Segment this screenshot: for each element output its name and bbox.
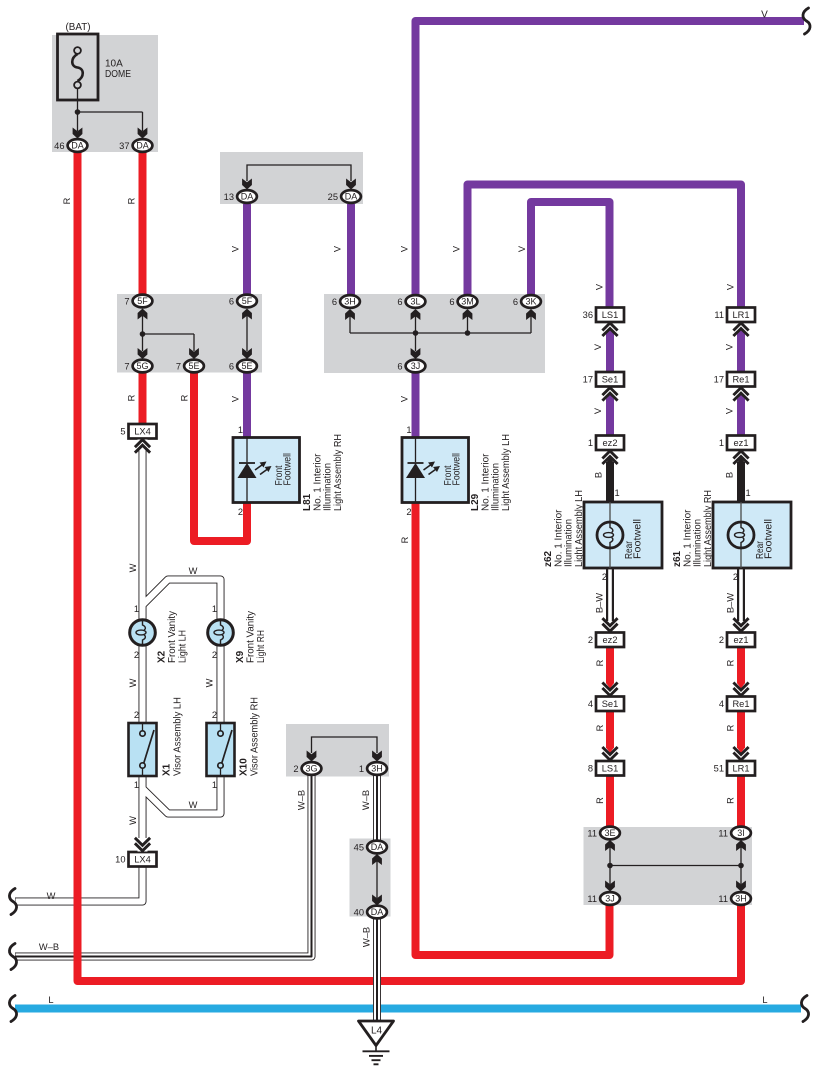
chevrons into 4 Re1 [733,683,748,696]
wire R 5E to L81 pin2 [194,372,247,541]
svg-text:V: V [761,10,768,21]
svg-text:ez2: ez2 [603,438,618,448]
svg-text:2: 2 [134,710,139,720]
arrow into 37DA [138,128,148,139]
ground L4 [359,1021,394,1064]
chevrons into 36 LS1 [602,323,617,336]
wire R L29 pin2 to 3J [416,502,610,955]
svg-text:3L: 3L [410,297,420,307]
svg-text:6: 6 [229,362,234,372]
svg-text:46: 46 [54,141,64,151]
wire R Re1 to LR1 [737,711,745,749]
svg-text:V: V [400,245,410,252]
chevrons into 5 LX4 [138,440,148,449]
svg-text:37: 37 [119,141,129,151]
chevrons into 17 Se1 [602,388,617,401]
svg-text:6: 6 [397,362,402,372]
svg-text:7: 7 [176,362,181,372]
svg-text:5E: 5E [188,361,199,371]
rect 10 LX4 [129,852,157,867]
svg-text:8: 8 [588,764,593,774]
svg-text:3M: 3M [461,297,474,307]
arrow into 3J [411,348,421,359]
rect 1 ez1 [727,436,755,451]
svg-text:L: L [762,995,767,1005]
svg-text:17: 17 [714,375,724,385]
svg-text:W: W [189,800,198,810]
svg-text:W: W [128,563,138,572]
svg-text:Light RH: Light RH [256,630,267,663]
svg-text:R: R [726,724,736,731]
label X1 visor [162,697,184,776]
oval 7 5F [133,295,153,308]
svg-text:7: 7 [124,362,129,372]
wire R 46DA to bottom to 3H [78,151,742,981]
svg-text:ez1: ez1 [734,438,749,448]
svg-text:5: 5 [120,427,125,437]
junction block 3E/3I/3J/3H [584,827,753,905]
svg-text:R: R [726,659,736,666]
45DA/40DA link [376,859,378,898]
svg-text:B: B [725,472,735,478]
svg-text:W: W [128,816,138,825]
wire V top feed to 3L [416,21,805,295]
svg-text:V: V [725,407,735,414]
svg-text:ez2: ez2 [603,635,618,645]
svg-text:ez1: ez1 [734,635,749,645]
arrow into 3E [605,840,615,851]
fuse DOME 10A [58,34,99,100]
oval 25 DA [341,190,361,203]
svg-text:2: 2 [406,507,411,517]
svg-text:W–B: W–B [361,790,371,810]
oval 46 DA [68,139,88,152]
front vanity light X9 bulb [208,620,234,646]
svg-text:2: 2 [602,572,607,582]
svg-text:Front Vanity: Front Vanity [246,611,257,663]
svg-text:W–B: W–B [297,790,307,810]
oval 6 3J [406,360,426,373]
svg-text:R: R [62,197,72,204]
visor assembly X10 [207,723,235,776]
oval texts [71,141,747,918]
junction block 3G/3H [286,724,389,777]
svg-text:V: V [725,343,735,350]
arrow into 3K [526,309,536,320]
svg-text:2: 2 [293,764,298,774]
oval 6 3H [340,295,360,308]
junction dot fuse [75,109,81,115]
svg-text:Light LH: Light LH [178,630,189,663]
arrow into 40DA [372,895,382,906]
INTERNAL BLOCK WIRING [78,89,742,898]
svg-text:1: 1 [212,604,217,614]
svg-text:40: 40 [354,908,364,918]
label X9 vanity [235,611,267,663]
svg-text:1: 1 [359,764,364,774]
chevrons into 8 LS1 [602,747,617,760]
svg-text:Light Assembly LH: Light Assembly LH [574,490,585,567]
CONNECTOR OVALS [68,139,751,918]
svg-text:Front Vanity: Front Vanity [167,611,178,663]
chevrons into 17 Re1 [733,388,748,401]
label L29 assembly [470,434,512,511]
svg-text:R: R [127,197,137,204]
wire V LS1 to Se1 [606,334,614,372]
wire W visor RH return [143,776,221,814]
svg-text:2: 2 [588,635,593,645]
svg-text:4: 4 [588,699,593,709]
svg-text:51: 51 [714,764,724,774]
arrow into 7 5E [189,348,199,359]
svg-text:11: 11 [714,310,724,320]
svg-text:Light Assembly RH: Light Assembly RH [703,490,714,567]
svg-text:B: B [594,472,604,478]
svg-text:Re1: Re1 [732,699,749,709]
junction dot 3L [413,330,419,336]
svg-text:W–B: W–B [39,942,59,952]
chevrons into 1 ez2 [602,451,617,464]
svg-text:3J: 3J [605,894,615,904]
svg-text:5G: 5G [136,361,148,371]
rect 1 ez2 [596,436,624,451]
svg-text:B–W: B–W [595,593,605,613]
break L left [9,996,16,1022]
svg-text:1: 1 [134,604,139,614]
svg-text:7: 7 [124,297,129,307]
wire V 25DA to 3H [347,204,355,295]
svg-text:3H: 3H [735,894,747,904]
svg-text:R: R [595,724,605,731]
svg-text:LS1: LS1 [602,764,619,774]
rect 36 LS1 [596,308,624,323]
oval 6 3M [458,295,478,308]
wire B-W rear footwell RH to ez1 [737,567,745,621]
junction block 3H/3L/3M/3K/3J [324,294,545,373]
junction dot 3M [465,330,471,336]
arrow into 3J lower [605,881,615,892]
svg-text:X9: X9 [235,650,246,663]
3E/3I/3J/3H links [610,846,741,884]
svg-text:3I: 3I [737,828,745,838]
svg-text:5E: 5E [241,361,252,371]
arrow into 3H lower [372,751,382,762]
rect 51 LR1 [727,761,755,776]
chevrons into 51 LR1 [733,747,748,760]
arrow into 46DA [73,128,83,139]
oval 6 5F [237,295,257,308]
wire V Re1 to ez1 [737,399,745,437]
svg-text:Footwell: Footwell [283,453,294,486]
svg-text:LX4: LX4 [134,855,151,865]
svg-text:13: 13 [224,192,234,202]
svg-text:V: V [333,245,343,252]
wire B ez1 to rear footwell RH [737,462,745,503]
fuse output wiring [78,89,143,131]
svg-text:R: R [726,797,736,804]
svg-text:1: 1 [212,780,217,790]
wire R 37DA to 5F [139,151,147,295]
oval 13 DA [237,190,257,203]
svg-text:3G: 3G [305,764,317,774]
wire W-B 40DA to ground L4 [373,918,381,1022]
arrow into 25DA [346,179,356,190]
label X10 visor [239,697,261,776]
label z62 assembly [543,490,585,567]
front footwell light L81 box [233,438,300,503]
oval 7 5G [133,360,153,373]
oval 6 3K [521,295,541,308]
chevrons into 2 ez1 [733,618,748,631]
oval 37 DA [133,139,153,152]
3G/3H link [312,737,378,753]
rear footwell light z61 box [713,502,791,568]
wire B ez2 to rear footwell LH [606,462,614,503]
svg-text:6: 6 [229,297,234,307]
svg-text:2: 2 [733,572,738,582]
break L right [801,996,808,1022]
oval 1 3H [367,762,387,775]
svg-text:DA: DA [136,141,149,151]
junction block (BAT fuse box) [52,35,158,152]
svg-text:Light Assembly RH: Light Assembly RH [333,434,344,511]
svg-text:Footwell: Footwell [452,453,463,486]
DA 13/25 link [247,165,351,181]
svg-text:1: 1 [588,438,593,448]
rotated wire color labels [62,197,736,947]
wire V 3K to LS1 [531,202,610,308]
svg-text:DA: DA [371,842,384,852]
svg-text:10A: 10A [105,59,123,70]
chevrons into 1 ez1 [733,451,748,464]
svg-text:X2: X2 [157,650,168,663]
svg-text:V: V [593,343,603,350]
rear footwell light z62 box [584,502,662,568]
svg-text:W–B: W–B [362,927,372,947]
svg-text:6: 6 [449,297,454,307]
svg-text:V: V [231,245,241,252]
break W-B left [9,944,16,970]
break V top right [803,8,810,34]
svg-text:6: 6 [332,297,337,307]
svg-text:2: 2 [238,507,243,517]
svg-text:5F: 5F [242,296,253,306]
junction dot 3E [607,863,613,869]
svg-text:4: 4 [719,699,724,709]
svg-text:1: 1 [719,438,724,448]
svg-text:3J: 3J [411,361,421,371]
svg-text:10: 10 [115,855,125,865]
svg-text:LR1: LR1 [732,310,749,320]
junction dot 5F block [140,331,146,337]
rect 2 ez2 [596,633,624,648]
svg-text:Light Assembly LH: Light Assembly LH [501,434,512,511]
svg-text:V: V [452,245,462,252]
arrow into 3H lower right [736,881,746,892]
svg-text:11: 11 [587,829,597,839]
rect texts [134,310,749,865]
wire R 5G to LX4 [139,372,147,425]
svg-text:11: 11 [718,829,728,839]
svg-text:DA: DA [371,907,384,917]
wire V Se1 to ez2 [606,399,614,437]
front footwell light L29 box [402,438,469,503]
junction block DA (13/25) [220,152,363,204]
wire R ez2 to Se1 [606,646,614,684]
wire V 13DA to 5F [243,204,251,295]
svg-text:R: R [595,659,605,666]
svg-text:V: V [517,245,527,252]
svg-text:2: 2 [212,650,217,660]
svg-text:DA: DA [71,141,84,151]
wire V 3J to L29 pin1 [412,372,420,438]
front vanity light X2 bulb [130,620,156,646]
svg-text:1: 1 [238,425,243,435]
wire V 5E to L81 pin1 [243,372,251,438]
wire R LS1 to 3E [606,776,614,828]
svg-text:1: 1 [746,488,751,498]
white wire cores [16,448,312,957]
junction block 5F/5G/5E [117,294,262,373]
W-B black tracer stripes [376,775,378,1021]
svg-text:2: 2 [212,710,217,720]
arrow into 45DA [372,854,382,865]
label Front Footwell L81 [274,453,294,486]
svg-text:Visor Assembly LH: Visor Assembly LH [173,697,184,776]
W-B tracer stripe 3G wire [16,775,312,957]
wire W-B 3G to left edge [15,775,312,957]
svg-text:Visor Assembly RH: Visor Assembly RH [250,697,261,776]
label z61 assembly [672,490,714,567]
5F/5G/5E links [143,313,248,351]
WHITE WIRES over colored [377,567,741,1022]
svg-text:2: 2 [719,635,724,645]
label Front Footwell L29 [443,453,463,486]
visor assembly X1 [129,723,157,776]
oval 45 DA [367,841,387,854]
svg-text:25: 25 [328,192,338,202]
svg-text:V: V [595,283,605,290]
rect 17 Se1 [596,372,624,387]
wire V LR1 to Re1 [737,334,745,372]
wire B-W rear footwell LH to ez2 [606,567,614,621]
oval 11 3H [731,892,751,905]
break W left [9,889,16,915]
svg-text:36: 36 [583,310,593,320]
3H/3L/3M/3K bus [350,313,531,351]
svg-text:DA: DA [345,192,358,202]
oval 6 5E [237,360,257,373]
svg-text:R: R [400,536,410,543]
white wire cores [377,567,741,1021]
svg-text:W: W [128,678,138,687]
component pin numbers [134,425,738,790]
svg-text:W: W [47,891,56,901]
svg-text:DOME: DOME [105,69,131,80]
svg-text:1: 1 [615,488,620,498]
wire R LR1 to 3I [737,776,745,828]
junction dot 3I [738,863,744,869]
rect 17 Re1 [727,372,755,387]
wire W main LX4 to vanity/visor LH to LX4 to left edge [15,448,143,902]
svg-text:R: R [180,394,190,401]
svg-text:W: W [189,566,198,576]
oval 40 DA [367,906,387,919]
oval 7 5E [184,360,204,373]
svg-text:LS1: LS1 [602,310,619,320]
svg-text:LR1: LR1 [732,764,749,774]
arrow into 3I [736,840,746,851]
rect 8 LS1 [596,761,624,776]
svg-text:R: R [127,394,137,401]
arrow into 3L [411,309,421,320]
arrow into 3H [345,309,355,320]
junction block DA (45/40) [350,839,391,917]
svg-text:W: W [205,678,215,687]
chevrons into 11 LR1 [733,323,748,336]
arrow into 3M [463,309,473,320]
rect 4 Re1 [727,697,755,712]
wire V 3M to LR1 [468,185,742,309]
oval 11 3J [600,892,620,905]
wire R Se1 to LS1 [606,711,614,749]
svg-text:Footwell: Footwell [764,519,775,559]
svg-text:1: 1 [406,425,411,435]
arrow into 6 5F [242,309,252,320]
label X2 vanity [157,611,189,663]
svg-text:1: 1 [134,780,139,790]
svg-text:5F: 5F [137,296,148,306]
svg-text:DA: DA [241,192,254,202]
svg-text:R: R [595,797,605,804]
svg-text:V: V [726,283,736,290]
svg-text:3H: 3H [344,297,356,307]
svg-text:17: 17 [583,375,593,385]
chevrons into 2 ez2 [602,618,617,631]
CONNECTOR RECTANGLES [129,308,756,867]
svg-text:B–W: B–W [726,593,736,613]
rect 11 LR1 [727,308,755,323]
svg-text:Se1: Se1 [602,375,619,385]
chevrons into 10 LX4 [138,838,148,852]
svg-text:3K: 3K [525,297,536,307]
svg-text:(BAT): (BAT) [66,22,91,33]
svg-text:X10: X10 [239,758,250,776]
arrow into 13DA [242,179,252,190]
svg-text:11: 11 [718,894,728,904]
svg-text:Se1: Se1 [602,699,619,709]
svg-text:6: 6 [513,297,518,307]
svg-text:3E: 3E [604,828,615,838]
svg-text:6: 6 [397,297,402,307]
svg-text:2: 2 [134,650,139,660]
svg-text:L: L [48,995,53,1005]
svg-text:Footwell: Footwell [633,519,644,559]
wire R ez1 to Re1 [737,646,745,684]
WHITE WIRES (drawn under red trunk) [15,448,312,957]
svg-text:Re1: Re1 [732,375,749,385]
label L81 assembly [302,434,344,511]
arrow into 6 5E [242,348,252,359]
svg-text:3H: 3H [371,764,383,774]
wire L bus (blue) [15,1005,801,1013]
rect 5 LX4 [129,424,157,439]
oval 11 3E [600,827,620,840]
wire W-B 3H to 45DA [373,775,381,840]
svg-text:L4: L4 [371,1026,383,1037]
oval 6 3L [406,295,426,308]
svg-text:LX4: LX4 [134,427,151,437]
